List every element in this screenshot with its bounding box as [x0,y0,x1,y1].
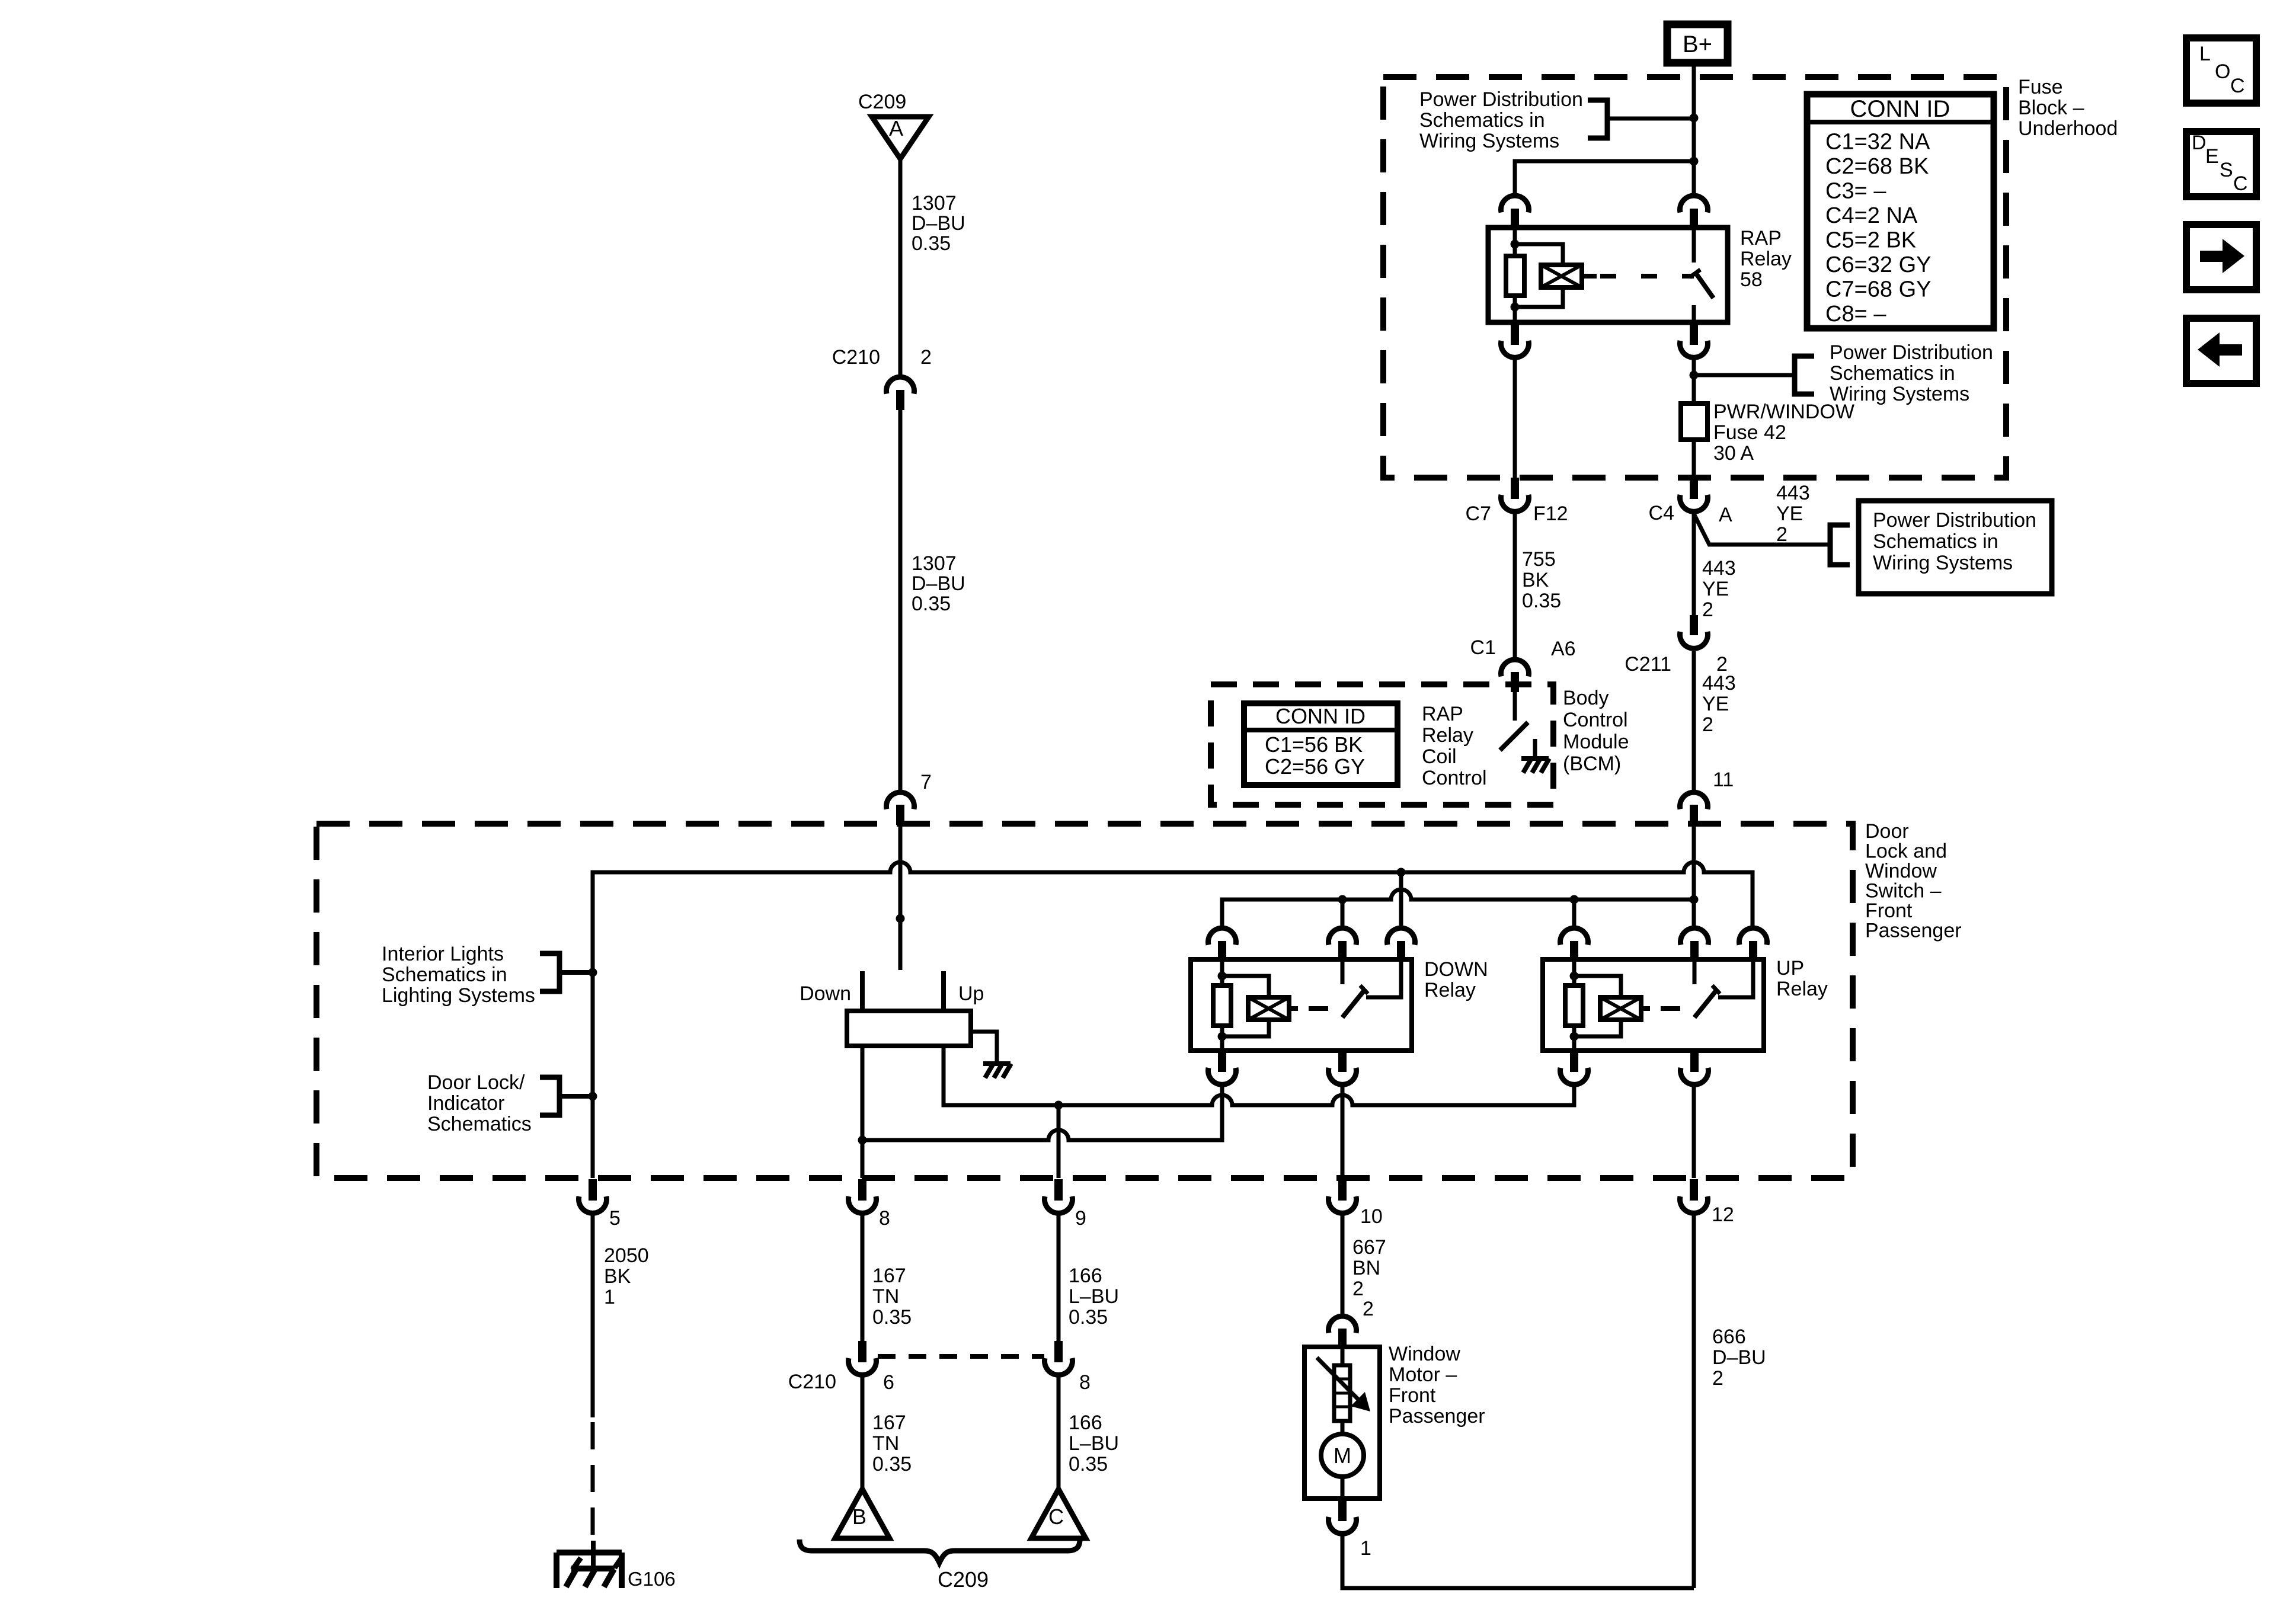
wire 443 YE to power distribution box [1694,514,1828,545]
svg-text:RAP: RAP [1422,703,1463,725]
icon back arrow [2186,318,2256,383]
ground bus line in switch [589,862,1753,1178]
BCM ground [1521,739,1549,773]
RAP relay switch blade [1690,228,1713,322]
bracket to power distribution (top) [1588,100,1694,138]
svg-text:2: 2 [1352,1278,1364,1300]
svg-text:Door Lock/: Door Lock/ [427,1071,525,1094]
wire RAP relay to C7 [1513,359,1517,478]
svg-text:2: 2 [1702,713,1713,736]
svg-text:E: E [2205,145,2219,168]
wire 1307 D-BU from C210 to connector 7 [898,409,903,790]
wire 755 BK 0.35 [1513,514,1517,657]
svg-text:Schematics in: Schematics in [382,964,507,986]
connector C7 / F12 [1466,478,1568,525]
svg-text:2: 2 [1712,1367,1723,1390]
relay UP Relay [1543,928,1828,1084]
reference box Power Distribution Schematics in Wiring Systems [1859,501,2052,594]
svg-text:Lighting Systems: Lighting Systems [382,984,535,1007]
svg-text:C8= –: C8= – [1825,302,1886,327]
connector C210 pin 6 [788,1341,894,1394]
svg-text:Switch –: Switch – [1865,879,1942,902]
svg-text:Control: Control [1563,709,1628,731]
wire B+ branch to RAP relay coil [1515,161,1694,194]
bracket interior lights [540,953,593,991]
svg-text:0.35: 0.35 [1069,1306,1108,1329]
svg-text:Power Distribution: Power Distribution [1830,341,1993,364]
svg-text:0.35: 0.35 [872,1453,912,1475]
svg-text:Passenger: Passenger [1389,1405,1485,1427]
wire 443 YE 2 to switch [1692,651,1696,790]
connector C211 pin 2 [1625,615,1728,676]
svg-text:D–BU: D–BU [912,212,965,235]
wire 167 TN 0.35 (lower) [862,1377,912,1488]
svg-text:D–BU: D–BU [912,572,965,595]
wire 9 down from junction [1057,1105,1061,1178]
svg-text:A: A [1719,504,1732,526]
svg-text:BK: BK [604,1265,631,1288]
svg-text:RAP: RAP [1740,227,1782,249]
svg-text:F12: F12 [1533,502,1568,525]
BCM rap relay coil control switch [1500,686,1528,750]
svg-text:2: 2 [1363,1298,1374,1320]
label Door Lock and Window Switch - Front Passenger [1865,820,1962,942]
svg-text:Window: Window [1389,1343,1460,1365]
junction to power distribution (right of RAP) [1690,359,1793,404]
svg-text:12: 12 [1712,1204,1734,1226]
window motor box [1304,1347,1380,1499]
svg-text:B+: B+ [1683,31,1712,57]
svg-text:Power Distribution: Power Distribution [1419,88,1583,111]
svg-text:C1=56 BK: C1=56 BK [1265,732,1363,757]
svg-text:166: 166 [1069,1265,1102,1287]
wire switch up output [944,1046,1574,1110]
wire label 443 YE 2 (mid) [1702,557,1736,621]
svg-text:C: C [2230,75,2245,97]
svg-text:Wiring Systems: Wiring Systems [1873,552,2013,574]
svg-text:Down: Down [800,982,851,1005]
RAP relay coil resistor [1506,228,1524,322]
wire 1307 D-BU from triangle A to C210 [898,159,903,375]
svg-text:B: B [852,1505,866,1529]
svg-text:9: 9 [1075,1207,1086,1230]
label Down / Up [800,982,984,1005]
svg-text:Front: Front [1389,1384,1436,1407]
svg-text:Schematics in: Schematics in [1419,109,1545,132]
svg-text:A: A [889,116,903,140]
reference Power Distribution Schematics (top) [1419,88,1583,152]
svg-text:1: 1 [1360,1537,1371,1560]
label Window Motor - Front Passenger [1389,1343,1485,1427]
connector RAP relay switch pin 87 out [1680,324,1708,357]
svg-text:L: L [2199,43,2211,65]
svg-text:10: 10 [1360,1205,1383,1228]
svg-text:755: 755 [1522,548,1556,571]
svg-text:Passenger: Passenger [1865,919,1962,942]
svg-text:Module: Module [1563,731,1629,753]
conn id table (BCM) [1244,703,1398,785]
wire 166 L-BU 0.35 (upper) [1059,1215,1119,1341]
wire label 2050 BK 1 [604,1244,649,1308]
wire 667 BN 2 [1342,1215,1386,1314]
svg-text:11: 11 [1713,769,1734,791]
label Body Control Module (BCM) [1563,687,1629,775]
svg-text:0.35: 0.35 [1522,590,1561,612]
svg-text:C210: C210 [832,346,880,369]
svg-text:Relay: Relay [1424,979,1476,1001]
svg-text:8: 8 [1079,1371,1091,1394]
fuse PWR/WINDOW Fuse 42 30 A [1681,401,1854,465]
connector RAP relay coil pin 85 out [1501,324,1529,357]
svg-text:TN: TN [872,1432,899,1455]
connector symbol C209 triangle A [858,91,929,159]
svg-text:C7: C7 [1466,502,1491,525]
wire label 1307 D-BU 0.35 (upper) [912,192,965,255]
connector 11 into door switch [1680,769,1734,825]
svg-text:Underhood: Underhood [2018,117,2118,140]
wire 167 TN 0.35 (upper) [862,1215,912,1341]
wire label 755 BK 0.35 [1522,548,1561,612]
svg-text:C: C [2233,172,2248,195]
svg-text:C211: C211 [1625,653,1671,676]
RAP relay linkage dashes [1600,274,1694,279]
icon next arrow [2186,225,2256,290]
svg-text:D: D [2192,132,2207,154]
wire switch down to DOWN relay [862,1087,1222,1140]
svg-text:G106: G106 [628,1568,676,1590]
connector C1 / A6 [1470,636,1576,692]
svg-text:C3= –: C3= – [1825,179,1886,204]
svg-text:0.35: 0.35 [912,593,951,615]
dashed link between C210 halves [878,1354,1044,1359]
svg-text:C: C [1048,1505,1064,1529]
svg-text:30 A: 30 A [1713,442,1754,465]
reference Door Lock/Indicator Schematics [427,1071,532,1135]
connector 1 from window motor [1329,1500,1371,1560]
window motor M [1321,1421,1364,1499]
wire label 443 YE 2 (upper) [1776,482,1810,546]
connector 9 [1045,1179,1086,1230]
svg-text:0.35: 0.35 [872,1306,912,1329]
feed bus line in switch [1222,889,1699,926]
svg-text:2050: 2050 [604,1244,649,1267]
wire 11 to up relay [1692,825,1696,926]
svg-text:167: 167 [872,1411,906,1434]
svg-text:C210: C210 [788,1371,836,1393]
wire B+ to RAP relay [1690,63,1699,194]
svg-text:C209: C209 [938,1567,989,1592]
bracket power distribution (boxed) [1830,525,1850,565]
svg-text:C4: C4 [1649,502,1674,524]
svg-text:8: 8 [879,1207,890,1230]
svg-text:L–BU: L–BU [1069,1285,1119,1308]
svg-text:1307: 1307 [912,192,957,215]
label RAP Relay Coil Control [1422,703,1487,789]
RAP relay coil winding [1515,244,1597,307]
svg-text:443: 443 [1776,482,1810,504]
wire down-relay feed [1399,872,1403,926]
svg-text:Fuse: Fuse [2018,76,2063,98]
bracket power distribution (mid) [1795,356,1814,394]
icon LOC [2186,38,2256,103]
svg-text:Schematics in: Schematics in [1830,362,1955,385]
connector 10 [1329,1179,1383,1228]
svg-text:DOWN: DOWN [1424,958,1488,981]
connector C210 pin 8 [1045,1341,1091,1394]
svg-text:Lock and: Lock and [1865,840,1947,862]
svg-text:D–BU: D–BU [1712,1346,1766,1369]
connector C209 triangle B [835,1489,890,1538]
svg-text:5: 5 [609,1207,621,1230]
bracket door lock indicator [540,1077,593,1115]
svg-text:443: 443 [1702,557,1736,580]
connector 8 [848,1179,890,1230]
svg-text:CONN ID: CONN ID [1275,704,1366,728]
connector C209 triangle C [1031,1489,1086,1538]
svg-text:C6=32 GY: C6=32 GY [1825,252,1932,277]
svg-text:1307: 1307 [912,552,957,575]
wire motor return to 666 [1342,1536,1694,1588]
svg-text:L–BU: L–BU [1069,1432,1119,1455]
fuse block underhood dashed box [1383,77,2006,478]
relay DOWN Relay [1191,928,1488,1084]
connector C210 pin 2 [887,377,914,410]
svg-text:666: 666 [1712,1326,1746,1348]
svg-text:Door: Door [1865,820,1909,843]
svg-text:C2=68 BK: C2=68 BK [1825,154,1929,179]
window switch ground lead [971,1032,997,1062]
svg-text:YE: YE [1702,693,1729,715]
svg-text:2: 2 [1702,598,1713,621]
svg-text:7: 7 [920,771,932,793]
wire 10 from DOWN relay [1341,1087,1345,1178]
wire label 443 YE 2 (lower) [1702,672,1736,736]
svg-text:2: 2 [1776,523,1787,546]
svg-text:Schematics in: Schematics in [1873,530,1998,553]
svg-text:C1=32 NA: C1=32 NA [1825,130,1930,155]
wire 12 from UP relay [1692,1087,1696,1178]
connector 5 [579,1179,621,1230]
label Fuse Block - Underhood [2018,76,2118,140]
svg-text:YE: YE [1702,578,1729,600]
wire 666 D-BU 2 [1694,1215,1766,1588]
svg-text:Indicator: Indicator [427,1092,504,1115]
ground G106 [557,1541,676,1590]
bcm dashed box [1211,684,1553,805]
power symbol B+ [1667,24,1728,63]
svg-text:TN: TN [872,1285,899,1308]
reference Interior Lights Schematics [382,943,535,1007]
svg-text:A6: A6 [1551,638,1576,660]
svg-text:Coil: Coil [1422,745,1457,768]
svg-text:C7=68 GY: C7=68 GY [1825,277,1932,302]
svg-text:166: 166 [1069,1411,1102,1434]
window motor circuit breaker [1317,1349,1370,1421]
connector 2 into window motor [1329,1298,1374,1349]
svg-text:Motor –: Motor – [1389,1363,1457,1386]
svg-text:(BCM): (BCM) [1563,753,1621,775]
svg-text:UP: UP [1776,957,1804,980]
svg-text:0.35: 0.35 [1069,1453,1108,1475]
svg-text:O: O [2215,60,2230,83]
svg-text:YE: YE [1776,502,1803,525]
svg-text:Up: Up [958,982,984,1005]
svg-text:Power Distribution: Power Distribution [1873,509,2036,532]
svg-text:C1: C1 [1470,636,1496,659]
svg-text:6: 6 [883,1371,894,1394]
svg-text:2: 2 [920,346,932,369]
wire 2050 BK 1 [591,1215,595,1543]
relay RAP Relay 58 box [1488,227,1792,322]
svg-text:Relay: Relay [1422,724,1473,747]
svg-text:Relay: Relay [1740,248,1792,270]
svg-text:443: 443 [1702,672,1736,694]
window switch ground [983,1064,1011,1078]
wire 7 into switch wiper [896,824,905,970]
svg-text:C4=2 NA: C4=2 NA [1825,203,1918,228]
svg-text:0.35: 0.35 [912,232,951,255]
wire 443 YE to C211 [1692,514,1696,615]
svg-text:Body: Body [1563,687,1609,709]
svg-text:Block –: Block – [2018,97,2084,119]
svg-text:Interior Lights: Interior Lights [382,943,504,965]
wire label 1307 D-BU 0.35 (lower) [912,552,965,615]
window switch body [847,1011,971,1046]
connector 7 into door switch [887,771,932,825]
svg-text:S: S [2220,159,2233,181]
conn id table (fuse block) [1807,94,1994,328]
svg-text:58: 58 [1740,268,1763,291]
svg-text:C5=2 BK: C5=2 BK [1825,228,1916,253]
icon DESC [2186,132,2256,197]
svg-text:Control: Control [1422,767,1487,789]
connector C4 / A [1649,478,1732,526]
svg-text:Relay: Relay [1776,978,1828,1000]
svg-text:C2=56 GY: C2=56 GY [1265,754,1365,779]
window switch contacts [862,971,944,1011]
wire fuse to C4 [1692,440,1696,478]
svg-text:1: 1 [604,1286,615,1308]
door lock and window switch dashed box [316,824,1853,1178]
svg-text:167: 167 [872,1265,906,1287]
svg-text:Front: Front [1865,900,1913,922]
reference Power Distribution Schematics (mid) [1830,341,1993,405]
wire 166 L-BU 0.35 (lower) [1059,1377,1119,1488]
wire switch down output [858,1046,867,1178]
svg-text:C209: C209 [858,91,906,113]
svg-text:667: 667 [1352,1236,1386,1259]
svg-text:Wiring Systems: Wiring Systems [1419,130,1559,152]
svg-text:BK: BK [1522,569,1549,591]
svg-text:CONN ID: CONN ID [1850,96,1950,122]
svg-text:M: M [1334,1443,1351,1468]
svg-text:BN: BN [1352,1257,1380,1279]
label C210 / 2 at in-line connector [832,346,932,369]
svg-text:Fuse 42: Fuse 42 [1713,421,1786,444]
svg-text:Window: Window [1865,860,1937,882]
svg-text:PWR/WINDOW: PWR/WINDOW [1713,401,1854,423]
connector RAP relay switch pin 30 [1680,196,1708,229]
wire feed branches to relay pins [1342,900,1574,926]
connector RAP relay coil pin 86 [1501,196,1529,229]
brace C209 [800,1539,1080,1592]
connector 12 [1680,1179,1734,1226]
svg-text:Schematics: Schematics [427,1113,532,1135]
